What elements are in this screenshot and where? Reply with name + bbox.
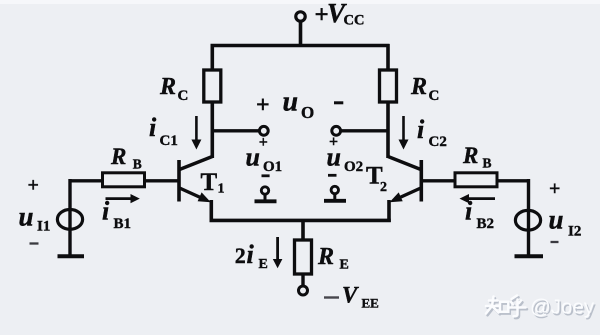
svg-text:E: E (340, 257, 349, 272)
svg-text:i: i (247, 240, 255, 269)
transistor T1 (179, 157, 212, 223)
svg-text:u: u (19, 201, 34, 231)
resistor RB (right) (455, 173, 497, 187)
label iC1 with arrow (149, 113, 201, 150)
svg-text:O2: O2 (344, 159, 363, 175)
svg-text:2: 2 (235, 243, 246, 268)
wire base T1 right segment (145, 179, 178, 182)
svg-text:i: i (465, 197, 473, 226)
resistor RB (left) (103, 173, 145, 187)
label T2 (366, 163, 387, 196)
node output terminal uO2 (332, 126, 341, 135)
wire left collector branch bottom (211, 102, 215, 158)
label -VEE (324, 283, 379, 311)
svg-text:E: E (259, 257, 268, 272)
ground (uI2) (515, 254, 544, 258)
svg-text:R: R (317, 244, 334, 270)
label uO2 with polarity (327, 134, 364, 176)
label RB (right) (462, 143, 492, 171)
svg-text:CC: CC (344, 13, 365, 29)
ground (uI1) (58, 254, 85, 258)
label T1 (201, 169, 225, 197)
resistor RC (right) (380, 70, 397, 102)
ground (output uO2 reference) (324, 186, 346, 201)
wire to output terminal uO2 (341, 129, 388, 132)
label iB1 with arrow (102, 194, 140, 232)
svg-text:I1: I1 (37, 219, 50, 235)
label uO1 with polarity (246, 134, 283, 176)
label iC2 with arrow (399, 115, 447, 150)
svg-text:+: + (256, 93, 270, 119)
svg-text:O: O (301, 103, 314, 122)
source uI2 (515, 179, 540, 256)
svg-text:C: C (429, 88, 440, 104)
svg-text:u: u (327, 143, 341, 172)
svg-text:R: R (159, 74, 176, 100)
power terminal -VEE (299, 286, 308, 295)
svg-text:R: R (410, 74, 427, 100)
label RE (317, 244, 349, 273)
svg-text:B: B (133, 157, 142, 172)
svg-text:u: u (283, 87, 299, 118)
svg-text:i: i (149, 113, 157, 142)
svg-text:u: u (246, 143, 260, 172)
wire top bus (211, 44, 390, 48)
wire to output terminal uO1 (212, 129, 259, 132)
svg-text:B1: B1 (114, 216, 132, 232)
svg-text:2: 2 (380, 180, 387, 195)
label uI2 with polarity (549, 178, 582, 242)
svg-text:EE: EE (362, 296, 379, 311)
svg-text:R: R (110, 144, 126, 169)
wire tail branch bottom (301, 274, 304, 287)
wire tail branch top (301, 220, 305, 241)
source uI1 (57, 179, 82, 256)
svg-text:C: C (178, 88, 189, 104)
ground (output uO1 reference) (255, 187, 277, 202)
label RB (left) (110, 144, 142, 172)
label 2iE with arrow (235, 237, 283, 272)
label +VCC (315, 0, 365, 29)
wire left collector branch top (211, 44, 215, 71)
transistor T2 (388, 157, 421, 223)
watermark 知乎 @Joey (486, 296, 596, 321)
svg-text:+: + (259, 134, 268, 151)
svg-text:i: i (102, 197, 110, 226)
svg-text:V: V (342, 283, 359, 308)
svg-text:C1: C1 (160, 133, 178, 149)
svg-text:i: i (417, 115, 425, 144)
svg-text:O1: O1 (263, 159, 282, 175)
label uI1 with polarity (19, 175, 51, 244)
node output terminal uO1 (259, 126, 268, 135)
svg-text:B2: B2 (477, 216, 495, 232)
svg-text:T: T (201, 169, 218, 196)
label uO with polarity (256, 87, 343, 123)
label iB2 with arrow (460, 194, 496, 232)
resistor RE (295, 240, 312, 274)
svg-text:@Joey: @Joey (530, 296, 595, 319)
label RC (right) (410, 74, 439, 104)
svg-text:C2: C2 (429, 134, 447, 150)
wire base T1 left segment (69, 179, 104, 182)
svg-text:u: u (549, 205, 564, 235)
resistor RC (left) (204, 70, 221, 102)
svg-text:R: R (462, 143, 478, 168)
wire right collector branch top (386, 44, 390, 71)
svg-text:1: 1 (218, 182, 225, 197)
power terminal +VCC (296, 12, 305, 47)
svg-text:I2: I2 (568, 224, 581, 240)
svg-text:+: + (28, 175, 39, 197)
wire right collector branch bottom (386, 102, 390, 158)
wire bottom emitter bus (210, 219, 391, 223)
wire base T2 to source uI2 (497, 179, 530, 182)
svg-text:+: + (549, 178, 560, 200)
svg-text:B: B (483, 156, 492, 171)
wire base T2 right segment (423, 179, 456, 182)
label RC (left) (159, 74, 188, 104)
